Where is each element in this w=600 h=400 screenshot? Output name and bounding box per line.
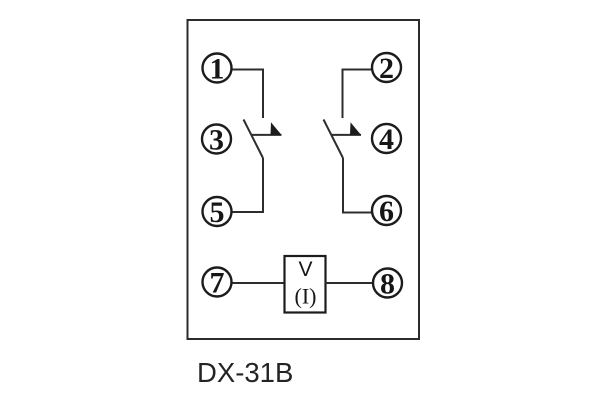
svg-text:7: 7 bbox=[210, 266, 225, 299]
svg-text:5: 5 bbox=[210, 196, 225, 229]
terminal 8 bbox=[373, 267, 402, 300]
svg-text:V: V bbox=[298, 258, 312, 281]
svg-text:8: 8 bbox=[380, 267, 395, 300]
coil element box V(I) bbox=[285, 256, 326, 313]
terminal 4 bbox=[372, 123, 401, 156]
wire contact K1 to terminal 5 bbox=[233, 158, 264, 212]
actuation arrow of contact K2 bbox=[332, 122, 362, 135]
terminal 1 bbox=[203, 52, 232, 85]
wire terminal1 to contact K1 bbox=[233, 70, 264, 119]
svg-text:1: 1 bbox=[210, 52, 225, 85]
svg-text:DX-31B: DX-31B bbox=[197, 357, 293, 388]
svg-text:(I): (I) bbox=[295, 284, 317, 309]
wire terminal 7 to coil bbox=[233, 282, 285, 284]
terminal 2 bbox=[372, 52, 401, 85]
wire contact K2 to terminal 6 bbox=[343, 158, 371, 213]
terminal 5 bbox=[203, 196, 232, 229]
wire coil to terminal 8 bbox=[326, 282, 373, 284]
svg-text:6: 6 bbox=[379, 195, 394, 228]
actuation arrow of contact K1 bbox=[252, 122, 282, 135]
wire terminal2 to contact K2 bbox=[343, 70, 372, 119]
terminal 3 bbox=[202, 123, 231, 156]
svg-text:3: 3 bbox=[209, 123, 224, 156]
terminal 7 bbox=[203, 266, 232, 299]
svg-text:2: 2 bbox=[379, 52, 394, 85]
enclosure outline bbox=[188, 20, 420, 339]
svg-text:4: 4 bbox=[379, 123, 394, 156]
contact blade K2 bbox=[324, 120, 344, 159]
terminal 6 bbox=[372, 195, 401, 228]
contact blade K1 bbox=[244, 120, 264, 159]
